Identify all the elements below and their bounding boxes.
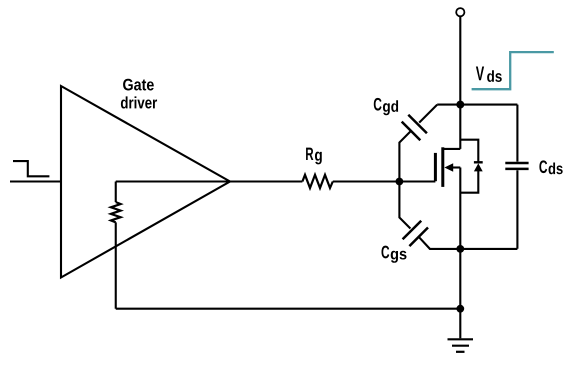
transistor Q1 source arrow <box>444 163 453 171</box>
node gate junction <box>396 178 404 186</box>
wire gate driver internal node to Rg <box>116 180 303 182</box>
capacitor Cds <box>516 105 518 162</box>
capacitor Cgd <box>419 105 437 123</box>
label Gate <box>123 79 154 91</box>
wire top rail Cgd corner to Cds corner <box>437 104 517 106</box>
body diode D1 anode arrow <box>474 163 483 171</box>
label Cds <box>539 160 562 174</box>
wire feedback bottom <box>116 308 461 310</box>
wire drain node down to MOSFET drain <box>459 105 461 149</box>
label Vds <box>476 66 502 82</box>
transistor Q1 source lead <box>451 166 460 168</box>
capacitor Cgs <box>399 182 410 229</box>
terminal VDD top <box>456 8 464 16</box>
input step signal <box>13 161 49 176</box>
wire input to gate driver <box>10 180 61 182</box>
label Cgd <box>374 98 398 115</box>
resistor R1 driver pull-down <box>115 182 117 203</box>
transistor Q1 gate bar <box>434 153 437 181</box>
waveform Vds step <box>472 52 554 89</box>
wire terminal to drain node <box>459 17 461 105</box>
node drain top <box>456 101 464 109</box>
ground <box>459 309 461 339</box>
op-amp U1 gate driver triangle <box>61 86 230 278</box>
wire Rg to gate node <box>333 180 436 182</box>
node ground junction <box>456 305 464 313</box>
transistor Q1 channel bar <box>441 147 444 187</box>
body diode D1 upper branch <box>460 140 478 163</box>
node source <box>456 245 464 253</box>
wire source node rail to Cds <box>460 248 517 250</box>
label Cgs <box>381 246 406 263</box>
body diode D1 lower branch <box>460 171 478 193</box>
resistor Rg <box>302 175 332 188</box>
wire MOSFET source down to source node <box>459 168 461 249</box>
label driver <box>121 96 157 108</box>
transistor Q1 MOSFET drain lead <box>443 148 461 150</box>
body diode D1 cathode bar <box>474 161 483 163</box>
wire source node to ground node <box>459 249 461 309</box>
label Rg <box>306 148 322 165</box>
